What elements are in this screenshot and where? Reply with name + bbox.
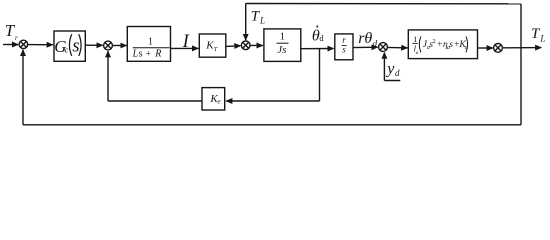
summing junction S3 [241, 41, 250, 50]
svg-text:d: d [373, 39, 378, 49]
svg-text:+: + [437, 39, 442, 49]
wire Ke to left [108, 100, 202, 102]
text 1/(Ls+R) [132, 37, 170, 60]
wire yd underline [384, 80, 400, 82]
text 1/Js [277, 31, 289, 56]
label Tr [5, 21, 18, 42]
svg-text:d: d [395, 68, 400, 78]
block 1/Js [264, 29, 301, 62]
wire sum4 to big block [388, 46, 408, 49]
svg-text:e: e [218, 98, 221, 106]
wire right vertical feedback [520, 4, 522, 125]
block 1/(Ls+R) [127, 27, 170, 62]
wire TL drop into sum3 [245, 4, 247, 41]
wire output TL [502, 47, 541, 49]
text Gc(s) [54, 34, 81, 56]
svg-text:1: 1 [280, 31, 285, 42]
block arm dynamics [408, 30, 477, 59]
svg-text:R: R [154, 49, 161, 60]
svg-text:2: 2 [432, 38, 435, 45]
wire sum2 to LsR block [113, 45, 127, 47]
label r-theta-d [358, 30, 377, 49]
svg-text:s: s [449, 40, 453, 50]
wire velocity tap down [319, 49, 321, 101]
block Gc(s) [54, 31, 85, 61]
wire up into sum1 [22, 50, 24, 125]
summing junction S4 [379, 43, 388, 52]
svg-text:r: r [15, 34, 18, 42]
text KT [205, 39, 218, 53]
summing junction S2 [104, 41, 113, 50]
label TL right [531, 26, 545, 43]
wire LsR to KT with I label [171, 47, 199, 49]
wire TL top horizontal [246, 3, 521, 5]
svg-text:s: s [342, 45, 346, 55]
text Ke [209, 93, 220, 106]
svg-text:I: I [182, 32, 190, 52]
svg-text:T: T [214, 46, 218, 53]
label theta-dot-d [312, 26, 325, 45]
wire inner loop to Ke [226, 100, 319, 102]
svg-text:1: 1 [148, 37, 153, 48]
block KT [199, 34, 226, 57]
text r/s [342, 35, 347, 54]
summing junction S1 [19, 40, 27, 48]
wire input Tr to sum1 [3, 44, 18, 46]
wire Gc to sum2 [85, 44, 102, 46]
svg-text:L: L [259, 16, 265, 26]
svg-text:s: s [72, 36, 79, 56]
text arm dynamics block [412, 35, 467, 56]
svg-text:s: s [139, 49, 143, 60]
wire rs to sum4 [353, 46, 378, 48]
wire yd input up into sum4 [383, 53, 385, 81]
block r/s [335, 34, 353, 60]
label TL top [251, 8, 265, 25]
svg-text:L: L [539, 33, 545, 43]
svg-text:c: c [65, 44, 69, 54]
wire sum3 to Js block [250, 44, 263, 46]
svg-text:L: L [132, 49, 139, 60]
wire up into sum2 [107, 51, 109, 101]
wire sum1 to Gc [28, 44, 53, 46]
svg-text:+: + [146, 49, 151, 59]
block Ke [202, 88, 225, 110]
summing junction S5 [494, 44, 503, 53]
svg-text:rθ: rθ [358, 30, 372, 47]
wire KT to sum3 [226, 45, 241, 48]
svg-text:d: d [319, 33, 324, 43]
svg-text:Js: Js [277, 44, 286, 56]
svg-text:y: y [385, 61, 395, 78]
wire big block to sum5 [478, 47, 493, 49]
wire Js to rs block [301, 48, 334, 50]
wire bottom feedback [23, 124, 521, 126]
label yd [385, 61, 400, 79]
svg-text:a: a [416, 50, 419, 56]
